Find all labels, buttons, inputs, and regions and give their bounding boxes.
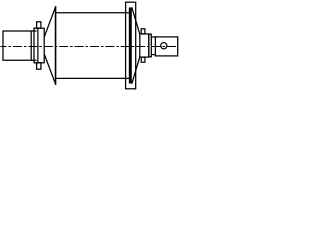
bearing left upper cap: [37, 22, 41, 28]
bearing right lower cap: [141, 57, 145, 62]
drum left flange: [55, 6, 57, 85]
bearing left lower cap: [37, 63, 41, 69]
shaft collar right: [149, 34, 152, 57]
shaft bottom line right: [151, 54, 155, 56]
coupling bolt hole circle: [161, 43, 167, 49]
drum shell top line: [55, 12, 129, 14]
coupling half left (brake drum): [3, 31, 37, 60]
bearing left stud line: [37, 28, 39, 63]
drum cone upper-left: [44, 7, 55, 36]
drum cone lower-right: [132, 57, 140, 84]
drum right flange plate (solid section bar): [129, 8, 132, 84]
shaft top line right: [151, 36, 155, 38]
drum cone upper-right: [132, 7, 140, 34]
drum shell bottom line: [55, 77, 129, 79]
coupling hub step line: [30, 31, 32, 60]
gear rim right (tall rectangle): [126, 2, 136, 89]
bearing housing right: [140, 34, 149, 57]
drum cone lower-left: [44, 55, 55, 84]
bearing housing left: [34, 28, 44, 63]
coupling half right: [155, 37, 177, 56]
bearing right upper cap: [141, 29, 145, 34]
centerline axis: [1, 46, 179, 48]
